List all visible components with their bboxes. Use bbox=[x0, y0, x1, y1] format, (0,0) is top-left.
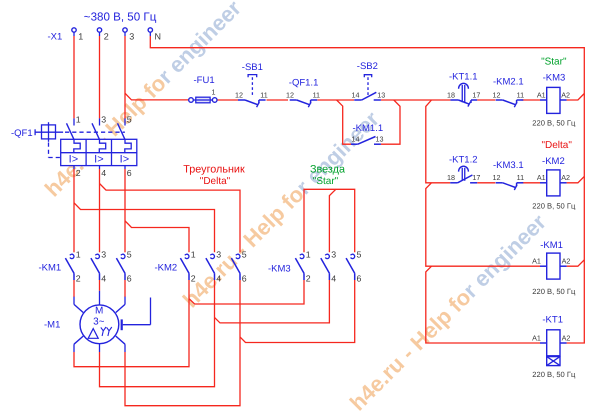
svg-text:"Star": "Star" bbox=[313, 176, 339, 187]
svg-text:2: 2 bbox=[191, 274, 196, 284]
svg-text:18: 18 bbox=[447, 173, 455, 182]
svg-text:3: 3 bbox=[101, 249, 106, 259]
svg-text:-FU1: -FU1 bbox=[194, 75, 215, 86]
svg-text:3: 3 bbox=[331, 249, 336, 259]
svg-text:-KM3: -KM3 bbox=[543, 72, 566, 83]
svg-text:12: 12 bbox=[493, 173, 501, 182]
svg-text:N: N bbox=[155, 31, 162, 41]
svg-text:3: 3 bbox=[101, 115, 106, 125]
svg-text:-KM3.1: -KM3.1 bbox=[493, 160, 524, 171]
svg-text:220 В, 50 Гц: 220 В, 50 Гц bbox=[532, 201, 576, 210]
svg-text:-SB2: -SB2 bbox=[357, 61, 378, 72]
svg-text:Звезда: Звезда bbox=[310, 164, 345, 176]
svg-text:14: 14 bbox=[352, 135, 360, 144]
svg-text:1: 1 bbox=[78, 31, 83, 41]
svg-text:-KM2.1: -KM2.1 bbox=[493, 76, 524, 87]
svg-text:-QF1: -QF1 bbox=[11, 128, 33, 139]
svg-text:14: 14 bbox=[352, 90, 360, 99]
svg-text:I>: I> bbox=[94, 154, 103, 166]
svg-text:-KM2: -KM2 bbox=[155, 263, 178, 274]
svg-text:5: 5 bbox=[127, 249, 132, 259]
svg-text:2: 2 bbox=[76, 168, 81, 178]
svg-text:-KT1.1: -KT1.1 bbox=[449, 72, 478, 83]
svg-text:-KM1: -KM1 bbox=[39, 263, 62, 274]
svg-text:11: 11 bbox=[260, 90, 267, 99]
svg-text:2: 2 bbox=[306, 274, 311, 284]
svg-text:17: 17 bbox=[472, 173, 480, 182]
svg-text:A2: A2 bbox=[562, 257, 571, 266]
svg-text:-KM1.1: -KM1.1 bbox=[353, 123, 384, 134]
svg-text:2: 2 bbox=[104, 31, 109, 41]
svg-text:3: 3 bbox=[129, 31, 134, 41]
svg-text:18: 18 bbox=[447, 90, 455, 99]
svg-text:5: 5 bbox=[127, 115, 132, 125]
svg-text:Треугольник: Треугольник bbox=[183, 164, 245, 176]
svg-text:M: M bbox=[95, 306, 103, 317]
svg-text:4: 4 bbox=[216, 274, 221, 284]
svg-text:6: 6 bbox=[127, 274, 132, 284]
svg-text:1: 1 bbox=[212, 88, 216, 97]
svg-text:"Delta": "Delta" bbox=[541, 140, 572, 151]
svg-text:4: 4 bbox=[331, 274, 336, 284]
svg-text:-SB1: -SB1 bbox=[242, 62, 263, 73]
svg-text:4: 4 bbox=[101, 168, 106, 178]
svg-text:220 В, 50 Гц: 220 В, 50 Гц bbox=[532, 370, 576, 379]
svg-text:17: 17 bbox=[472, 90, 480, 99]
svg-text:220 В, 50 Гц: 220 В, 50 Гц bbox=[532, 118, 576, 127]
svg-text:A2: A2 bbox=[562, 334, 571, 343]
svg-text:11: 11 bbox=[517, 173, 524, 182]
svg-text:"Delta": "Delta" bbox=[200, 176, 231, 187]
svg-text:3: 3 bbox=[216, 249, 221, 259]
svg-text:5: 5 bbox=[357, 249, 362, 259]
svg-text:-X1: -X1 bbox=[48, 32, 63, 43]
svg-text:-KM3: -KM3 bbox=[268, 264, 291, 275]
svg-text:-M1: -M1 bbox=[44, 320, 60, 331]
svg-text:A1: A1 bbox=[532, 257, 541, 266]
svg-text:13: 13 bbox=[376, 135, 384, 144]
svg-text:5: 5 bbox=[242, 249, 247, 259]
svg-text:11: 11 bbox=[313, 90, 320, 99]
svg-text:A2: A2 bbox=[561, 173, 570, 182]
svg-text:I>: I> bbox=[69, 154, 78, 166]
svg-text:6: 6 bbox=[127, 168, 132, 178]
svg-text:6: 6 bbox=[242, 274, 247, 284]
svg-text:1: 1 bbox=[76, 249, 81, 259]
svg-text:4: 4 bbox=[101, 274, 106, 284]
svg-text:-KM2: -KM2 bbox=[542, 156, 565, 167]
svg-text:12: 12 bbox=[493, 90, 501, 99]
svg-text:2: 2 bbox=[76, 274, 81, 284]
svg-text:-QF1.1: -QF1.1 bbox=[289, 78, 319, 89]
svg-text:~380 В, 50 Гц: ~380 В, 50 Гц bbox=[84, 11, 157, 24]
svg-text:11: 11 bbox=[517, 90, 524, 99]
svg-text:A1: A1 bbox=[537, 173, 546, 182]
svg-text:A1: A1 bbox=[537, 90, 546, 99]
svg-text:-KT1.2: -KT1.2 bbox=[449, 155, 478, 166]
svg-text:1: 1 bbox=[306, 249, 311, 259]
svg-text:1: 1 bbox=[191, 249, 196, 259]
svg-text:13: 13 bbox=[377, 90, 385, 99]
svg-text:A2: A2 bbox=[561, 90, 570, 99]
svg-text:3~: 3~ bbox=[93, 316, 105, 327]
svg-text:1: 1 bbox=[76, 115, 81, 125]
svg-text:A1: A1 bbox=[532, 334, 541, 343]
svg-text:-KT1: -KT1 bbox=[542, 314, 563, 325]
svg-text:12: 12 bbox=[286, 90, 294, 99]
svg-text:"Star": "Star" bbox=[541, 56, 567, 67]
svg-text:-KM1: -KM1 bbox=[540, 240, 563, 251]
svg-text:I>: I> bbox=[120, 154, 129, 166]
svg-text:6: 6 bbox=[357, 274, 362, 284]
svg-text:12: 12 bbox=[235, 90, 243, 99]
svg-text:220 В, 50 Гц: 220 В, 50 Гц bbox=[532, 287, 576, 296]
